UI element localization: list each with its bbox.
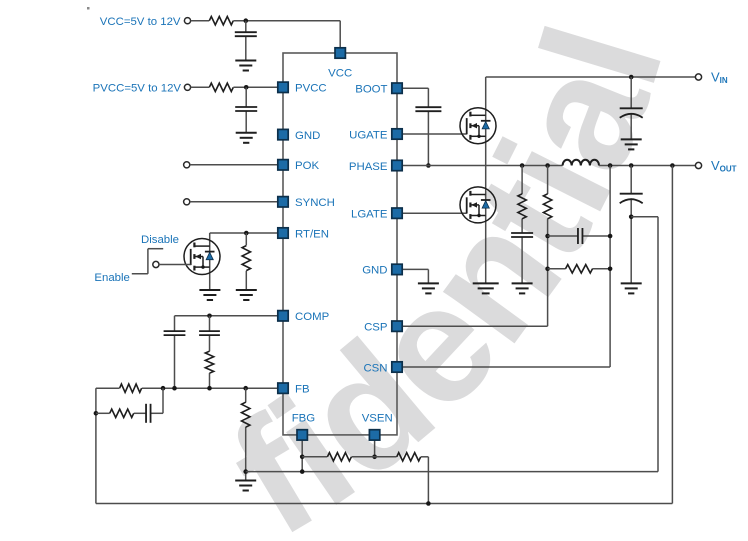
wire POK wire bbox=[190, 164, 278, 166]
ground VIN cap bbox=[621, 139, 642, 149]
svg-text:GND: GND bbox=[295, 130, 320, 142]
pin GND bbox=[278, 129, 288, 139]
svg-text:CSP: CSP bbox=[364, 322, 387, 334]
wire R1 leads bbox=[521, 166, 523, 284]
wire VCC node to pin bbox=[233, 21, 340, 48]
wire LGATE wire bbox=[403, 212, 467, 214]
svg-text:PVCC: PVCC bbox=[295, 83, 327, 95]
wire VIN rail bbox=[486, 76, 696, 78]
resistor R_fb3 bbox=[242, 402, 250, 427]
pin CSN right bbox=[392, 362, 402, 372]
node vout rail bbox=[670, 163, 675, 168]
wire C2R branch bbox=[209, 316, 211, 388]
pin LGATE right bbox=[392, 208, 402, 218]
terminal VIN bbox=[695, 74, 701, 80]
wire mid rail gnd sense bbox=[246, 471, 658, 473]
wire COMP wire bbox=[175, 316, 278, 388]
resistor R_rt bbox=[242, 246, 250, 271]
wire FB corner to left rail bbox=[96, 388, 120, 503]
capacitor C_fb bbox=[146, 404, 151, 423]
terminal VCC input bbox=[184, 18, 190, 24]
terminal PVCC input bbox=[184, 84, 190, 90]
ground PVCC cap bbox=[236, 133, 257, 143]
node phase r2 bbox=[545, 163, 550, 168]
svg-text:UGATE: UGATE bbox=[349, 129, 388, 141]
wire UGATE wire bbox=[403, 133, 467, 135]
node VSEN bbox=[372, 455, 377, 460]
resistor R_fb2 bbox=[110, 409, 134, 417]
ground GND pin bbox=[418, 283, 439, 293]
svg-text:SYNCH: SYNCH bbox=[295, 197, 335, 209]
capacitor C_boot bbox=[415, 107, 441, 111]
svg-text:GND: GND bbox=[362, 265, 387, 277]
pin COMP bbox=[278, 311, 288, 321]
ground Q2 source bbox=[473, 283, 499, 293]
pin PVCC bbox=[278, 82, 288, 92]
wire vout sense rail bbox=[671, 166, 673, 504]
node RT/EN bbox=[244, 231, 249, 236]
node PVCC input bbox=[244, 85, 249, 90]
resistor R_cs2 bbox=[566, 265, 593, 273]
wire gnd sense branch bbox=[631, 217, 658, 472]
svg-text:RT/EN: RT/EN bbox=[295, 228, 329, 240]
ground R_rt bbox=[236, 290, 257, 300]
node boot phase bbox=[426, 163, 431, 168]
ground Q3 source bbox=[199, 290, 220, 300]
capacitor C_comp1 bbox=[164, 331, 186, 335]
wire Q3 drain/source runner bbox=[209, 233, 211, 290]
svg-text:FB: FB bbox=[295, 384, 310, 396]
IC U1 body bbox=[283, 53, 397, 435]
wire FB wire bbox=[142, 387, 278, 389]
pin SYNCH bbox=[278, 197, 288, 207]
resistor R_sn1 bbox=[518, 194, 526, 219]
node phase r1 bbox=[520, 163, 525, 168]
svg-text:BOOT: BOOT bbox=[355, 84, 387, 96]
wire PVCC cap lead bbox=[245, 87, 247, 133]
wire CSN wire bbox=[403, 366, 610, 368]
node FB c bbox=[207, 386, 212, 391]
svg-text:POK: POK bbox=[295, 160, 319, 172]
pin GND right bbox=[392, 264, 402, 274]
svg-text:VSEN: VSEN bbox=[362, 413, 393, 425]
wire PVCC input to R bbox=[191, 86, 210, 88]
svg-text:Enable: Enable bbox=[94, 272, 129, 284]
node FBG bbox=[300, 455, 305, 460]
wire enable switch bbox=[132, 249, 163, 274]
capacitor C_cs bbox=[578, 228, 583, 244]
transistor Q2 low-side bbox=[460, 187, 496, 223]
pin VSEN bbox=[369, 430, 379, 440]
wire PVCC node to pin bbox=[233, 86, 277, 88]
capacitor C_sn1 bbox=[511, 233, 533, 237]
pin POK bbox=[278, 160, 288, 170]
wire CSP wire bbox=[403, 325, 548, 327]
wire FBG lead bbox=[301, 440, 303, 471]
ground VOUT cap bbox=[621, 283, 642, 293]
ground VCC cap bbox=[235, 61, 256, 71]
wire SYNCH wire bbox=[190, 201, 278, 203]
wire FET runner bbox=[485, 77, 487, 283]
ground snubber bbox=[512, 283, 533, 293]
pin FB bbox=[278, 383, 288, 393]
wire bottom rail vout sense bbox=[96, 503, 673, 505]
pin RT/EN bbox=[278, 228, 288, 238]
capacitor C_vout bbox=[620, 194, 643, 204]
wire cs cap row bbox=[548, 235, 611, 237]
wire VSEN row wires bbox=[302, 457, 428, 504]
resistor R_fb1 bbox=[120, 384, 142, 392]
node VCC input bbox=[244, 18, 249, 23]
wire PHASE rail bbox=[403, 165, 563, 167]
pin FBG bbox=[297, 430, 307, 440]
terminal VOUT bbox=[695, 162, 701, 168]
wire Q3 gate wire bbox=[159, 264, 191, 266]
svg-text:PVCC=5V to 12V: PVCC=5V to 12V bbox=[93, 83, 182, 95]
watermark Confidential bbox=[202, 6, 699, 541]
node FB a bbox=[161, 386, 166, 391]
wire RT resistor leads bbox=[245, 233, 247, 290]
capacitor C_vin bbox=[620, 108, 643, 118]
transistor Q1 high-side bbox=[460, 108, 496, 144]
node cs row2 l bbox=[545, 267, 550, 272]
resistor R_comp bbox=[205, 351, 213, 373]
svg-text:VCC: VCC bbox=[328, 67, 352, 79]
node mid rail left bbox=[243, 469, 248, 474]
wire BOOT wire bbox=[403, 88, 429, 165]
wire R2 rail bbox=[547, 166, 549, 327]
wire R_fb3 leads bbox=[245, 388, 247, 480]
capacitor C_comp2 bbox=[199, 331, 220, 335]
svg-text:COMP: COMP bbox=[295, 311, 329, 323]
node left rail bbox=[94, 411, 99, 416]
node vout cap bbox=[629, 163, 634, 168]
wire RC series row bbox=[96, 388, 163, 413]
resistor R_vsen bbox=[397, 453, 421, 461]
node cs row2 r bbox=[608, 267, 613, 272]
resistor R_vcc bbox=[209, 17, 233, 25]
wire cs res row bbox=[548, 268, 611, 270]
node cs row1 r bbox=[608, 234, 613, 239]
wire VCC input to R bbox=[191, 20, 210, 22]
node gnd sense bbox=[629, 215, 634, 220]
node vout sense bbox=[426, 501, 431, 506]
inductor L1 bbox=[563, 160, 599, 166]
node vout a bbox=[608, 163, 613, 168]
node FBG mid rail bbox=[300, 469, 305, 474]
wire VOUT rail bbox=[599, 165, 695, 167]
wire VIN cap leads bbox=[630, 77, 632, 139]
node FB d bbox=[243, 386, 248, 391]
resistor R_pvcc bbox=[209, 83, 233, 91]
svg-text:Disable: Disable bbox=[141, 234, 179, 246]
pin BOOT right bbox=[392, 83, 402, 93]
svg-text:FBG: FBG bbox=[292, 413, 316, 425]
resistor R_fbg bbox=[327, 453, 351, 461]
wire VSEN lead bbox=[374, 440, 376, 457]
wire RT/EN wire bbox=[210, 232, 278, 234]
pin CSP right bbox=[392, 321, 402, 331]
svg-text:CSN: CSN bbox=[363, 362, 387, 374]
wire VCC cap lead bbox=[245, 21, 247, 61]
node cs row1 l bbox=[545, 234, 550, 239]
capacitor C_vcc bbox=[235, 32, 257, 36]
resistor R_cs bbox=[543, 194, 551, 219]
svg-text:LGATE: LGATE bbox=[351, 209, 388, 221]
terminal POK bbox=[184, 162, 190, 168]
wire rail B bbox=[609, 166, 611, 368]
node FB b bbox=[172, 386, 177, 391]
wire VOUT cap leads bbox=[630, 166, 632, 284]
svg-text:PHASE: PHASE bbox=[349, 161, 388, 173]
wire GND pin wire bbox=[403, 269, 429, 283]
capacitor C_pvcc bbox=[235, 107, 257, 111]
node VIN cap bbox=[629, 75, 634, 80]
speck bbox=[87, 7, 90, 10]
terminal enable gate bbox=[153, 261, 159, 267]
pin UGATE right bbox=[392, 129, 402, 139]
pin PHASE right bbox=[392, 160, 402, 170]
node COMP branch bbox=[207, 314, 212, 319]
pin VCC bbox=[335, 48, 345, 58]
transistor Q3 enable bbox=[184, 239, 220, 275]
terminal SYNCH bbox=[184, 199, 190, 205]
ground FB divider bbox=[235, 481, 256, 491]
svg-text:VCC=5V to 12V: VCC=5V to 12V bbox=[100, 16, 181, 28]
